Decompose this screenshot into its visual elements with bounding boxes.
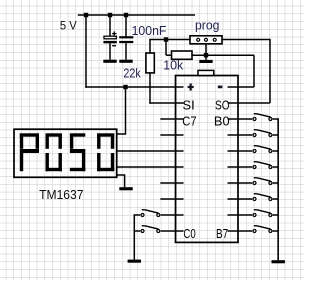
IC U1 microcontroller body — [176, 76, 239, 243]
capacitor C1 electrolytic plates — [104, 36, 116, 39]
svg-text:B7: B7 — [216, 227, 228, 241]
wire display VCC pin to + junction — [117, 133, 126, 135]
svg-text:B0: B0 — [214, 115, 230, 129]
pin label - — [218, 86, 223, 89]
junction + row / display VCC — [123, 85, 127, 89]
display module TM1637 body — [14, 129, 117, 177]
wire right switch ground bus — [277, 118, 279, 260]
junction 5V/C1 electrolytic — [108, 13, 112, 17]
J1 pin 2 circle — [205, 38, 208, 41]
wire SI pin row — [149, 102, 183, 104]
wire 5V down to MCU + pin — [85, 14, 87, 88]
wire 22k top lead — [149, 39, 151, 53]
wire SO pin row — [228, 102, 271, 104]
switch S10 (C0) — [134, 230, 140, 232]
wire U1 left pin C2 stub — [160, 198, 183, 200]
wire net B vertical down to - pin — [253, 55, 255, 87]
wire + pin row from 5V drop to MCU — [85, 86, 183, 88]
ground under C1 — [103, 60, 116, 63]
wire J1 pin2 down to ground net — [205, 44, 207, 60]
resistor R1 22k body — [146, 53, 154, 73]
wire U1 left pin C3 stub — [160, 182, 183, 184]
svg-text:SO: SO — [215, 99, 230, 113]
display digit P — [20, 133, 39, 136]
wire display pin3 to U1 C4 — [117, 166, 184, 168]
switch S9 (C1) — [134, 214, 140, 216]
junction 5V/vertical — [84, 13, 88, 17]
switch S5 (B4) — [228, 182, 253, 184]
junction net A / 10k branch — [164, 37, 168, 41]
wire 22k bottom lead to SI pin — [149, 73, 151, 104]
wire net A horizontal (22k top to prog pin1) — [150, 39, 190, 41]
wire net B: 10k right lead to - pin drop — [192, 54, 254, 56]
display digit 0 — [46, 133, 62, 136]
connector J1 prog body — [190, 36, 222, 44]
wire C1 bottom lead — [109, 43, 111, 59]
wire SO drop vertical — [269, 39, 271, 103]
display digit 5 — [70, 133, 85, 136]
wire C2 bottom lead — [125, 43, 127, 60]
switch S4 (B3) — [228, 166, 253, 168]
junction 5V/C2 100nF — [124, 13, 128, 17]
ground right switch bus — [272, 260, 285, 263]
wire 10k left lead — [166, 54, 172, 56]
wire left switch ground bus — [133, 214, 135, 259]
wire display pin2 to U1 C5 — [117, 150, 184, 152]
ground under prog — [199, 60, 212, 63]
ground under display — [119, 187, 132, 190]
ground under C2 — [119, 60, 132, 63]
svg-text:5 V: 5 V — [60, 18, 77, 32]
display digit 0 — [97, 133, 114, 136]
svg-text:TM1637: TM1637 — [39, 187, 83, 202]
J1 pin 1 circle — [197, 38, 200, 41]
junction net B under prog — [204, 53, 208, 57]
svg-text:prog: prog — [195, 18, 220, 33]
switch S6 (B5) — [228, 198, 253, 200]
switch S3 (B2) — [228, 150, 253, 152]
wire display GND pin — [117, 174, 125, 176]
C1 polarity - mark — [112, 45, 116, 47]
svg-text:100nF: 100nF — [132, 23, 167, 38]
switch S1 (B0) — [228, 118, 253, 120]
svg-text:22k: 22k — [123, 65, 141, 80]
switch S8 (B7) — [228, 230, 253, 232]
svg-text:C0: C0 — [183, 227, 195, 241]
switch S7 (B6) — [228, 214, 253, 216]
wire 5V rail horizontal — [78, 14, 195, 16]
ground left switch bus — [128, 260, 141, 263]
capacitor C2 100nF plates — [119, 36, 133, 38]
wire C1 top lead — [109, 15, 111, 36]
wire - pin row — [228, 86, 255, 88]
wire U1 left pin C6 stub — [160, 134, 183, 136]
pin label + — [188, 86, 194, 88]
svg-text:SI: SI — [183, 99, 195, 113]
wire U1 left pin C7 stub — [160, 118, 183, 120]
wire C2 top lead — [125, 15, 127, 36]
wire 10k branch vertical — [165, 40, 167, 56]
switch S2 (B1) — [228, 134, 253, 136]
C1 polarity + mark — [112, 33, 116, 35]
wire J1 pin3 to SO drop — [222, 39, 270, 41]
svg-text:C7: C7 — [182, 115, 196, 129]
svg-text:10k: 10k — [163, 58, 183, 73]
resistor R2 10k body — [172, 51, 193, 59]
U1 top tab — [198, 70, 214, 75]
J1 pin 3 circle — [213, 38, 216, 41]
